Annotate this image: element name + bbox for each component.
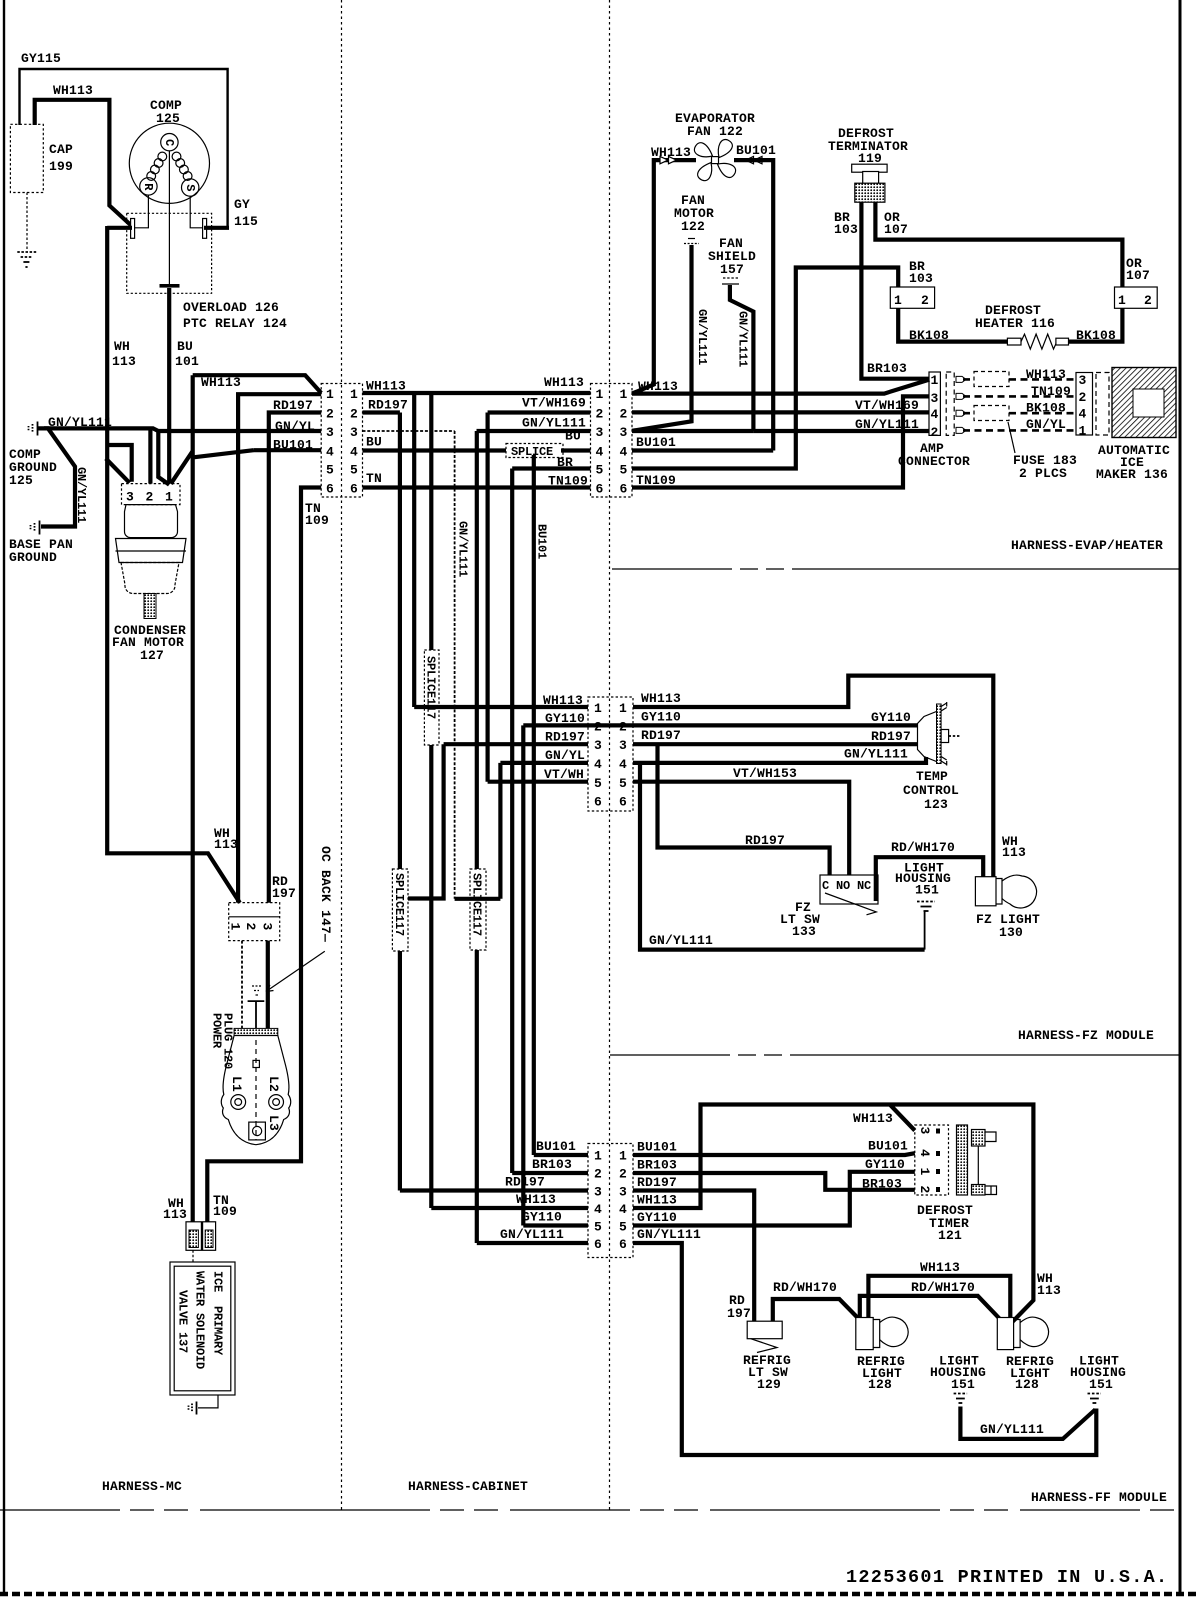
svg-text:103: 103 [909, 271, 933, 286]
wire splice GN/YL junction [455, 763, 501, 899]
FZ switch blade [825, 893, 876, 915]
wire trunk WH113 to FF pin4 (through splice117) [429, 393, 433, 1208]
svg-text:122: 122 [681, 219, 705, 234]
condenser fan motor body [125, 505, 178, 538]
svg-text:GN/YL111: GN/YL111 [855, 417, 919, 432]
svg-text:6: 6 [619, 1237, 627, 1252]
splice117 mid box (WH113) [424, 650, 439, 745]
wire GY110 FF pin5 to timer pin1 [633, 1172, 915, 1226]
svg-text:GY110: GY110 [871, 710, 911, 725]
plug face center dashed line [255, 1040, 257, 1140]
svg-text:2: 2 [917, 1186, 932, 1194]
defrost timer mechanism [957, 1125, 997, 1195]
wire trunk BR103 to FF pin2 [510, 469, 514, 1174]
svg-text:RD/WH170: RD/WH170 [891, 840, 955, 855]
FZ light bulb [1002, 875, 1037, 908]
separator harness-ff module [0, 1509, 1180, 1511]
svg-text:TN109: TN109 [1031, 384, 1071, 399]
svg-text:4: 4 [350, 445, 358, 460]
svg-text:125: 125 [9, 473, 33, 488]
wire GN/YL111 fan shield to J2 pin3 row [632, 285, 753, 431]
svg-text:199: 199 [49, 159, 73, 174]
wire GN/YL111 branch to housing ground [640, 763, 925, 950]
refrig light1 socket [856, 1318, 873, 1350]
temp control symbol [918, 702, 962, 766]
wire WH113 J2 pin1 to AMP pin1 [632, 380, 929, 394]
svg-text:WH113: WH113 [53, 83, 93, 98]
svg-text:RD197: RD197 [273, 398, 313, 413]
svg-text:WH113: WH113 [641, 691, 681, 706]
wire WH113 second feed to OC BACK pin2 [238, 394, 321, 902]
plug L3 pin [249, 1122, 266, 1140]
svg-text:197: 197 [272, 886, 296, 901]
svg-text:2: 2 [1079, 390, 1087, 405]
AMP connector [929, 372, 940, 435]
svg-text:3: 3 [620, 425, 628, 440]
wire GN/YL111 row to left connector pin3 [44, 428, 321, 431]
svg-text:1: 1 [165, 490, 173, 505]
svg-text:1: 1 [228, 923, 243, 931]
svg-text:BR103: BR103 [637, 1158, 677, 1173]
wire comp R stem [135, 195, 149, 228]
svg-text:BU101: BU101 [637, 1140, 677, 1155]
svg-text:HARNESS-FF MODULE: HARNESS-FF MODULE [1031, 1490, 1167, 1505]
wire TN109 J2 pin6 to AMP pin3 [632, 396, 929, 487]
svg-text:127: 127 [140, 648, 164, 663]
svg-text:WH113: WH113 [920, 1260, 960, 1275]
water valve box [170, 1262, 235, 1395]
wire BU101 FF pin1 to timer pin4 [633, 1153, 915, 1155]
svg-text:1: 1 [620, 387, 628, 402]
svg-text:GN/YL111: GN/YL111 [456, 521, 470, 577]
svg-text:1: 1 [594, 701, 602, 716]
svg-text:BR103: BR103 [862, 1177, 902, 1192]
svg-text:197: 197 [727, 1306, 751, 1321]
svg-text:101: 101 [175, 354, 199, 369]
svg-text:121: 121 [938, 1228, 962, 1243]
wire RD197 branch to FZ switch C [658, 744, 830, 875]
svg-text:1: 1 [350, 387, 358, 402]
wire row4 BU to J2 [561, 448, 591, 452]
svg-text:1: 1 [326, 387, 334, 402]
svg-text:HEATER 116: HEATER 116 [975, 316, 1055, 331]
svg-text:C: C [162, 139, 176, 146]
svg-text:6: 6 [326, 482, 334, 497]
svg-text:GN/YL: GN/YL [1026, 417, 1066, 432]
svg-text:1: 1 [594, 1149, 602, 1164]
svg-text:WH113: WH113 [637, 1193, 677, 1208]
svg-text:OVERLOAD 126: OVERLOAD 126 [183, 300, 279, 315]
fan motor terminal [684, 239, 699, 244]
wire drop to fan connector pin1 [158, 431, 169, 485]
svg-text:BU101: BU101 [868, 1139, 908, 1154]
defrost timer connector [915, 1125, 949, 1195]
wire GN/YL111 FF pin6 to housing grounds [633, 1243, 1096, 1455]
svg-text:VT/WH169: VT/WH169 [855, 398, 919, 413]
wire row1 WH113 J1-J2 [363, 391, 591, 395]
svg-text:MAKER 136: MAKER 136 [1096, 467, 1168, 482]
connector J3 FZ module [588, 697, 633, 811]
refrig switch blade [751, 1339, 777, 1353]
wire RD197 FZ pin3 to temp control [633, 742, 918, 746]
FZ light switch 133 [820, 875, 878, 904]
svg-text:VT/WH169: VT/WH169 [522, 396, 586, 411]
valve ground symbol [189, 1402, 197, 1415]
svg-text:GY: GY [234, 197, 250, 212]
wire WH113 vertical to power plug branch [107, 226, 240, 903]
harness boundary MC/cabinet (vertical dotted) [341, 0, 343, 1510]
wire OR107 terminator to heater box2 [875, 202, 1122, 288]
separator harness-fz module [610, 1054, 1180, 1056]
refrig light switch 129 [747, 1321, 782, 1339]
svg-text:3: 3 [619, 738, 627, 753]
svg-text:WH113: WH113 [544, 375, 584, 390]
svg-text:TN109: TN109 [548, 474, 588, 489]
svg-text:WATER SOLENOID: WATER SOLENOID [193, 1271, 207, 1369]
svg-text:4: 4 [917, 1149, 932, 1157]
FZ light socket [975, 877, 996, 906]
wire from OC BACK pin3 to plug [266, 941, 270, 1029]
wire BU101 relay to fan connector pin1 [167, 288, 171, 484]
wire trunk WH113 to FZ pin1 [412, 393, 416, 707]
svg-text:4: 4 [594, 757, 602, 772]
svg-text:128: 128 [1015, 1377, 1039, 1392]
wire GY115 stub to relay [204, 226, 229, 230]
svg-text:GY115: GY115 [21, 51, 61, 66]
border bottom [0, 1592, 1200, 1597]
svg-text:3: 3 [917, 1127, 932, 1135]
fuse callout line [1008, 422, 1015, 453]
svg-text:HARNESS-EVAP/HEATER: HARNESS-EVAP/HEATER [1011, 538, 1163, 553]
refrig light2 neck [1014, 1320, 1021, 1348]
svg-text:151: 151 [915, 883, 939, 898]
svg-text:RD197: RD197 [871, 729, 911, 744]
comp ground symbol [29, 422, 38, 436]
heater connector box2 1 2 [1115, 287, 1158, 308]
dashed wires to ice maker [963, 379, 1076, 430]
fan wire arrows [660, 156, 762, 163]
svg-text:VT/WH153: VT/WH153 [733, 766, 797, 781]
base pan ground symbol [31, 521, 40, 535]
svg-text:1: 1 [1079, 424, 1087, 439]
wire WH113 cap to relay [35, 100, 134, 228]
svg-text:R: R [141, 183, 155, 191]
svg-text:L3: L3 [266, 1115, 281, 1131]
harness boundary cabinet/modules (vertical dotted) [609, 0, 611, 1510]
wire GN/YL drop to fan connector pin2 [148, 428, 152, 483]
wire row4 BU101 J1 to splice [363, 448, 509, 452]
fuse 183 box 1 [974, 372, 1009, 387]
wire WH113 trunk corner into FZ pin1 [414, 705, 588, 709]
comp terminal C [161, 134, 178, 151]
svg-text:BR103: BR103 [867, 361, 907, 376]
svg-text:4: 4 [619, 757, 627, 772]
svg-text:2: 2 [620, 407, 628, 422]
svg-text:TN109: TN109 [636, 473, 676, 488]
wire RD/WH170 switch NC to FZ light [876, 857, 983, 901]
svg-text:113: 113 [112, 354, 136, 369]
AMP pin arrows [956, 376, 966, 433]
svg-text:HARNESS-CABINET: HARNESS-CABINET [408, 1479, 528, 1494]
svg-text:6: 6 [350, 482, 358, 497]
wire WH113 trunk into FF pin4 [431, 1206, 588, 1210]
svg-text:BU101: BU101 [273, 438, 313, 453]
overload/PTC relay box [127, 213, 212, 293]
power plug top bar [234, 1028, 278, 1035]
svg-text:GN/YL111: GN/YL111 [695, 309, 709, 365]
plug center ground bar and stem [248, 1001, 265, 1028]
svg-text:1: 1 [619, 701, 627, 716]
wire J1 pin4 left (BU101) [254, 448, 322, 452]
wire GN/YL111 trunk into FF pin6 [477, 1241, 588, 1245]
wire BR103 J2 pin5 to heater box1 [632, 268, 898, 469]
svg-text:ICE PRIMARY: ICE PRIMARY [211, 1271, 225, 1356]
svg-text:GN/YL111: GN/YL111 [649, 933, 713, 948]
condenser fan motor band [116, 539, 187, 563]
wire VT/WH153 FZ pin5 to switch [633, 782, 849, 875]
svg-text:3: 3 [619, 1185, 627, 1200]
wire trunk BU101 from splice to FF pin1 [532, 455, 536, 1155]
TN terminal connector [203, 1222, 216, 1251]
wire comp S stem [190, 196, 202, 228]
wire WH113 branch into fan pin3 (L) [107, 445, 132, 482]
svg-text:157: 157 [720, 262, 744, 277]
svg-text:RD197: RD197 [641, 728, 681, 743]
svg-text:BR: BR [557, 455, 573, 470]
svg-text:1: 1 [894, 293, 902, 308]
svg-text:C NO NC: C NO NC [822, 879, 871, 893]
svg-text:5: 5 [620, 463, 628, 478]
svg-text:GN/YL111: GN/YL111 [736, 311, 750, 367]
svg-text:FAN 122: FAN 122 [687, 124, 743, 139]
svg-text:GN/YL: GN/YL [545, 748, 585, 763]
splice117 left box (RD197) [392, 869, 408, 951]
wire BU101 fan to J2 pin4 [632, 160, 773, 450]
comp terminal S [182, 179, 199, 196]
refrig light1 neck [873, 1320, 880, 1348]
svg-text:3: 3 [931, 391, 939, 406]
svg-text:3: 3 [1079, 373, 1087, 388]
svg-text:129: 129 [757, 1377, 781, 1392]
wire GY110 trunk into FF pin5 [523, 1223, 588, 1227]
svg-text:GROUND: GROUND [9, 550, 57, 565]
svg-text:1: 1 [596, 387, 604, 402]
border left [3, 0, 5, 1594]
wire from OC BACK pin2 to plug (thin) [241, 941, 243, 1029]
svg-text:115: 115 [234, 214, 258, 229]
evaporator fan blades [694, 140, 735, 181]
svg-text:RD/WH170: RD/WH170 [773, 1280, 837, 1295]
housing ground 2 [1088, 1394, 1102, 1404]
svg-text:4: 4 [596, 445, 604, 460]
svg-text:GY110: GY110 [865, 1157, 905, 1172]
svg-text:1: 1 [931, 373, 939, 388]
svg-text:5: 5 [619, 776, 627, 791]
wire trunk GN/YL111 to FF pin6 (through splice117) [475, 431, 479, 1243]
svg-text:WH113: WH113 [201, 375, 241, 390]
svg-text:2: 2 [1144, 293, 1152, 308]
svg-text:SPLICE117: SPLICE117 [470, 873, 484, 936]
svg-text:107: 107 [1126, 268, 1150, 283]
capacitor C199 [10, 124, 43, 192]
svg-text:BR103: BR103 [532, 1157, 572, 1172]
wire GY110 FZ pin2 to temp control [633, 723, 918, 727]
wire WH113 FF pin4 to timer pin3 and refrig light2 [633, 1105, 1033, 1322]
connector J2 cabinet/evap [591, 384, 633, 498]
svg-text:3: 3 [350, 425, 358, 440]
svg-text:BU: BU [366, 435, 382, 450]
svg-text:3: 3 [326, 425, 334, 440]
svg-text:WH: WH [114, 339, 130, 354]
WH terminal connector [186, 1222, 201, 1251]
svg-text:RD197: RD197 [637, 1175, 677, 1190]
svg-text:2: 2 [146, 490, 154, 505]
wire row2 RD197 from J1 [363, 410, 400, 414]
svg-text:3: 3 [126, 490, 134, 505]
fz housing ground [917, 902, 935, 950]
refrig light2 socket [997, 1318, 1013, 1350]
wire WH113 relay stub [107, 226, 132, 230]
svg-text:3: 3 [260, 923, 275, 931]
svg-text:6: 6 [596, 482, 604, 497]
border right [1179, 0, 1182, 1594]
svg-text:PTC RELAY 124: PTC RELAY 124 [183, 316, 287, 331]
wire diagonal trunk to fan pin1 [171, 451, 193, 484]
wire BK108 heater loop right [1069, 308, 1123, 341]
svg-text:5: 5 [594, 776, 602, 791]
svg-text:OC BACK 147—: OC BACK 147— [318, 846, 333, 942]
svg-text:CONNECTOR: CONNECTOR [898, 454, 970, 469]
svg-text:SPLICE117: SPLICE117 [392, 873, 406, 936]
compressor COMP 125 circle [129, 123, 209, 203]
svg-text:4: 4 [620, 445, 628, 460]
heater connector box1 1 2 [890, 287, 934, 308]
svg-text:113: 113 [1002, 845, 1026, 860]
wire row3 GN/YL thin from J1 [363, 431, 455, 899]
svg-text:2: 2 [326, 407, 334, 422]
separator harness-evap/heater [612, 568, 1180, 570]
svg-text:2: 2 [243, 923, 258, 931]
refrig light2 bulb [1020, 1317, 1048, 1347]
svg-text:VALVE 137: VALVE 137 [176, 1290, 190, 1353]
svg-text:4: 4 [619, 1202, 627, 1217]
wire GN/YL into FZ pin4 [500, 761, 588, 765]
svg-text:6: 6 [594, 1237, 602, 1252]
wire J1 pin1 left (WH113) [193, 375, 322, 393]
svg-text:GN/YL111: GN/YL111 [844, 747, 908, 762]
svg-text:RD/WH170: RD/WH170 [911, 1280, 975, 1295]
condenser fan motor lower bell [121, 563, 179, 594]
splice box (BU) [506, 444, 563, 458]
svg-text:RD197: RD197 [505, 1175, 545, 1190]
wire WH113 FZ pin1 to FZ light [633, 676, 993, 877]
svg-text:S: S [183, 184, 197, 191]
svg-text:TN: TN [366, 471, 382, 486]
svg-text:BU101: BU101 [736, 143, 776, 158]
svg-text:L2: L2 [266, 1076, 281, 1092]
svg-text:BK108: BK108 [1076, 328, 1116, 343]
svg-text:BK108: BK108 [909, 328, 949, 343]
svg-text:113: 113 [1037, 1283, 1061, 1298]
svg-text:133: 133 [792, 924, 816, 939]
wire valve to ground [198, 1395, 218, 1408]
plug center ground [252, 986, 261, 995]
relay ground plate [160, 284, 180, 288]
ice maker connector [1076, 373, 1093, 436]
svg-text:GY110: GY110 [522, 1210, 562, 1225]
wire J1 pin2 left (RD197) to OC BACK pin3 [269, 413, 321, 903]
svg-text:RD197: RD197 [745, 833, 785, 848]
wire BU101 row4 diagonal join [194, 450, 254, 457]
wire trunk RD197 to FF pin3 (through splice117) [398, 413, 402, 1191]
svg-text:WH113: WH113 [516, 1192, 556, 1207]
svg-text:WH113: WH113 [543, 693, 583, 708]
wire row5 BR to J2 [512, 466, 590, 470]
condenser fan motor shaft [144, 594, 156, 619]
wire row6 TN J1-J2 [363, 485, 591, 489]
svg-text:109: 109 [213, 1204, 237, 1219]
wire GY115 top loop [20, 69, 228, 228]
wire VT/WH into FZ pin5 [488, 780, 588, 784]
svg-text:SPLICE117: SPLICE117 [424, 656, 438, 719]
svg-text:103: 103 [834, 222, 858, 237]
wire J1 pin6 left (TN109) to bottom TN connector [207, 488, 321, 1222]
comp winding C-S coil [172, 152, 192, 180]
svg-text:2: 2 [931, 425, 939, 440]
svg-text:GY110: GY110 [641, 710, 681, 725]
wire BK108 heater loop left [898, 308, 1008, 341]
wire BR103 terminator to AMP pin1 [861, 202, 929, 379]
svg-text:1: 1 [917, 1168, 932, 1176]
svg-text:6: 6 [594, 795, 602, 810]
plug key square [253, 1060, 259, 1067]
svg-text:BK108: BK108 [1026, 401, 1066, 416]
svg-text:128: 128 [868, 1377, 892, 1392]
svg-text:1: 1 [619, 1149, 627, 1164]
svg-text:113: 113 [163, 1207, 187, 1222]
svg-text:BU101: BU101 [536, 1139, 576, 1154]
wire WH113 up to evaporator fan [632, 160, 696, 394]
automatic ice maker box [1112, 368, 1176, 438]
svg-text:L1: L1 [229, 1076, 244, 1092]
wire VT/WH169 J2 pin2 to AMP pin4 [632, 410, 929, 414]
AMP mating half (dashed) [946, 372, 954, 435]
svg-text:5: 5 [594, 1220, 602, 1235]
defrost terminator symbol [852, 164, 887, 202]
svg-text:125: 125 [156, 111, 180, 126]
condenser fan connector 3 2 1 [122, 484, 181, 505]
svg-text:5: 5 [596, 463, 604, 478]
svg-text:12253601 PRINTED IN U.S.A.: 12253601 PRINTED IN U.S.A. [846, 1567, 1168, 1588]
plug L2 pin [269, 1095, 284, 1110]
svg-text:113: 113 [214, 837, 238, 852]
svg-text:123: 123 [924, 797, 948, 812]
svg-text:BU: BU [177, 339, 193, 354]
svg-text:151: 151 [951, 1377, 975, 1392]
svg-text:WH113: WH113 [853, 1111, 893, 1126]
svg-text:6: 6 [619, 795, 627, 810]
defrost heater resistor [1007, 334, 1068, 349]
svg-text:CAP: CAP [49, 142, 73, 157]
svg-text:151: 151 [1089, 1377, 1113, 1392]
power plug body [221, 1036, 290, 1145]
wire WH113 diagonal into fan pin3 [106, 459, 130, 483]
wire GN/YL111 J2 pin3 to AMP pin2 [753, 429, 929, 433]
refrig light1 bulb [880, 1317, 908, 1347]
svg-text:4: 4 [1079, 407, 1087, 422]
comp terminal R [140, 178, 157, 195]
svg-text:BU101: BU101 [535, 524, 549, 559]
